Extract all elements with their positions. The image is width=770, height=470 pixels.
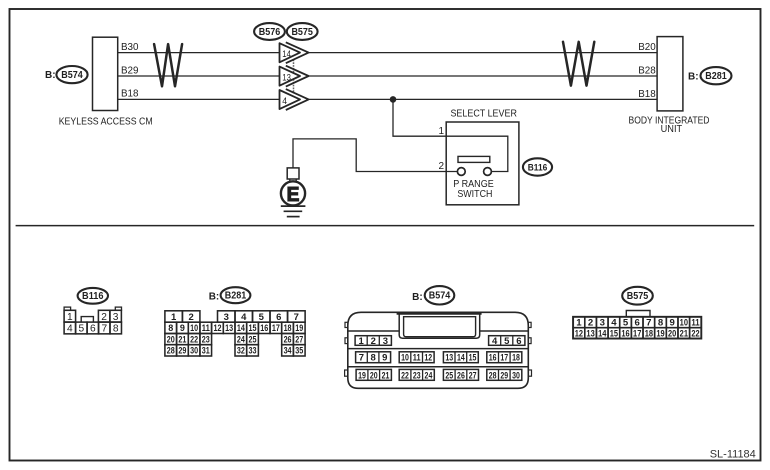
- connector label B: B281 (pinout): [209, 287, 251, 303]
- harness crossing symbol (right W): [563, 42, 594, 86]
- svg-text:15: 15: [610, 329, 619, 340]
- svg-text:19: 19: [295, 323, 303, 333]
- svg-text:18: 18: [284, 323, 292, 333]
- connector label B: B574 (pinout): [412, 286, 454, 304]
- svg-text:KEYLESS ACCESS CM: KEYLESS ACCESS CM: [59, 117, 153, 128]
- svg-text:23: 23: [202, 334, 210, 344]
- svg-text:6: 6: [516, 336, 521, 347]
- svg-text:B116: B116: [528, 162, 548, 172]
- svg-text:4: 4: [241, 312, 247, 323]
- wire B20 right segment: [309, 52, 657, 54]
- switch bar: [458, 156, 490, 162]
- pin 1 label: [438, 126, 444, 137]
- B574 pinout row 2 cells 7-18: [356, 352, 522, 364]
- wire B29 left segment: [118, 75, 280, 77]
- svg-text:15: 15: [469, 353, 477, 364]
- connector label B: B281: [688, 67, 732, 84]
- svg-text:9: 9: [382, 353, 387, 364]
- svg-text:1: 1: [67, 312, 73, 323]
- pin label B30: [121, 42, 139, 53]
- svg-text:7: 7: [101, 324, 107, 335]
- ground E symbol: [281, 181, 305, 206]
- svg-text:29: 29: [178, 346, 186, 356]
- in-line connector terminal 4: [280, 89, 309, 110]
- svg-text:19: 19: [656, 329, 664, 340]
- svg-text:21: 21: [680, 329, 689, 340]
- svg-text:32: 32: [237, 346, 245, 356]
- svg-text:25: 25: [445, 370, 453, 381]
- svg-text:6: 6: [276, 312, 281, 323]
- svg-text:SELECT LEVER: SELECT LEVER: [450, 109, 517, 120]
- svg-text:B:: B:: [209, 292, 220, 303]
- svg-text:7: 7: [359, 353, 364, 364]
- svg-text:33: 33: [249, 346, 257, 356]
- svg-text:15: 15: [249, 323, 257, 333]
- switch contact left: [457, 168, 465, 176]
- svg-text:14: 14: [282, 49, 291, 59]
- connector box: BODY INTEGRATED UNIT: [629, 37, 710, 136]
- pin 2 label: [438, 161, 444, 172]
- svg-text:13: 13: [586, 329, 594, 340]
- connector label B575 (schematic): [287, 23, 318, 40]
- svg-text:8: 8: [168, 323, 173, 333]
- wire B30 left segment: [118, 52, 280, 54]
- svg-text:SL-11184: SL-11184: [710, 448, 756, 460]
- svg-text:9: 9: [180, 323, 185, 333]
- svg-text:B:: B:: [412, 292, 423, 303]
- pin label B20: [638, 42, 656, 53]
- svg-text:28: 28: [489, 370, 497, 381]
- svg-text:B20: B20: [638, 42, 656, 53]
- svg-text:31: 31: [202, 346, 210, 356]
- svg-text:12: 12: [213, 323, 221, 333]
- svg-text:25: 25: [249, 334, 257, 344]
- svg-text:21: 21: [382, 370, 390, 381]
- pin label B18: [121, 89, 139, 100]
- svg-text:12: 12: [424, 353, 432, 364]
- connector label B116 (pinout): [78, 288, 108, 304]
- B574 pinout row 1 cells 1-6: [355, 336, 525, 347]
- svg-text:10: 10: [190, 323, 198, 333]
- pin label B29: [121, 65, 139, 76]
- svg-text:4: 4: [282, 96, 287, 106]
- svg-text:35: 35: [295, 346, 303, 356]
- svg-text:30: 30: [512, 370, 520, 381]
- svg-text:11: 11: [413, 353, 421, 364]
- svg-text:4: 4: [492, 336, 498, 347]
- pin label B18 (right): [638, 89, 656, 100]
- svg-text:8: 8: [370, 353, 375, 364]
- svg-text:17: 17: [500, 353, 508, 364]
- svg-text:14: 14: [237, 323, 245, 333]
- connector label B576: [254, 23, 285, 40]
- switch contact right: [484, 168, 492, 176]
- svg-text:10: 10: [401, 353, 409, 364]
- svg-text:1: 1: [171, 312, 177, 323]
- harness crossing symbol (left W): [154, 44, 182, 86]
- svg-text:18: 18: [512, 353, 520, 364]
- svg-text:24: 24: [425, 370, 433, 381]
- svg-text:22: 22: [691, 329, 699, 340]
- svg-text:B18: B18: [638, 89, 656, 100]
- svg-text:5: 5: [504, 336, 510, 347]
- svg-text:2: 2: [101, 312, 107, 323]
- svg-text:27: 27: [295, 334, 303, 344]
- connector label B116 (schematic): [523, 158, 552, 175]
- svg-text:29: 29: [500, 370, 508, 381]
- svg-text:2: 2: [189, 312, 194, 323]
- wire from junction to select lever pin 1: [393, 99, 446, 136]
- wire B28 right segment: [309, 75, 657, 77]
- pin label B28: [638, 66, 656, 77]
- svg-text:B29: B29: [121, 65, 139, 76]
- in-line connector terminal 14: [280, 42, 309, 63]
- svg-text:B:: B:: [688, 71, 699, 82]
- svg-text:16: 16: [621, 329, 629, 340]
- svg-text:22: 22: [190, 334, 198, 344]
- svg-text:17: 17: [633, 329, 641, 340]
- P range switch label: [453, 179, 494, 200]
- connector label B575 (pinout): [622, 287, 653, 305]
- svg-text:7: 7: [294, 312, 299, 323]
- svg-text:2: 2: [438, 161, 444, 172]
- switch internal wiring pin1 to right contact: [446, 136, 508, 171]
- wire B18 left segment: [118, 98, 280, 100]
- svg-text:B18: B18: [121, 89, 139, 100]
- svg-text:27: 27: [469, 370, 477, 381]
- wire B18 right segment: [309, 98, 657, 100]
- svg-text:23: 23: [413, 370, 421, 381]
- svg-text:19: 19: [358, 370, 366, 381]
- svg-text:B28: B28: [638, 66, 656, 77]
- svg-text:3: 3: [224, 312, 229, 323]
- svg-text:28: 28: [167, 346, 175, 356]
- svg-text:5: 5: [78, 324, 84, 335]
- svg-text:20: 20: [370, 370, 378, 381]
- junction node on wire B18: [390, 96, 397, 103]
- connector B281 pinout: [165, 311, 305, 356]
- svg-text:34: 34: [284, 346, 292, 356]
- svg-text:2: 2: [371, 336, 376, 347]
- svg-text:4: 4: [67, 324, 73, 335]
- svg-text:B576: B576: [259, 27, 281, 38]
- wire from ground to pin 2: [293, 139, 457, 172]
- svg-text:B281: B281: [705, 71, 727, 82]
- svg-text:B575: B575: [627, 291, 649, 302]
- connector label B: B574: [45, 66, 88, 83]
- svg-text:20: 20: [167, 334, 175, 344]
- svg-text:16: 16: [489, 353, 497, 364]
- svg-text:14: 14: [598, 329, 607, 340]
- svg-text:18: 18: [645, 329, 654, 340]
- svg-text:21: 21: [178, 334, 186, 344]
- svg-text:SWITCH: SWITCH: [457, 189, 492, 200]
- svg-text:26: 26: [284, 334, 292, 344]
- svg-text:B30: B30: [121, 42, 139, 53]
- connector B574 pinout shell: [345, 312, 532, 388]
- B574 pinout row 3 cells 19-30: [356, 369, 522, 381]
- svg-text:1: 1: [438, 126, 444, 137]
- svg-text:B281: B281: [225, 291, 247, 302]
- svg-text:13: 13: [225, 323, 233, 333]
- svg-text:11: 11: [202, 323, 210, 333]
- svg-text:B574: B574: [429, 291, 451, 302]
- svg-text:12: 12: [575, 329, 583, 340]
- dashed link between in-line connector terminals: [293, 60, 295, 94]
- select lever box: [446, 109, 519, 205]
- svg-text:B116: B116: [82, 291, 104, 302]
- svg-text:3: 3: [113, 312, 119, 323]
- svg-text:13: 13: [445, 353, 453, 364]
- svg-text:1: 1: [359, 336, 365, 347]
- svg-text:30: 30: [190, 346, 198, 356]
- svg-text:B574: B574: [61, 70, 83, 81]
- svg-text:24: 24: [237, 334, 245, 344]
- svg-text:E: E: [287, 183, 300, 206]
- connector B575 pinout: [573, 311, 701, 340]
- svg-text:B:: B:: [45, 70, 56, 81]
- svg-text:6: 6: [90, 324, 96, 335]
- connector B116 pinout: [64, 307, 121, 334]
- svg-text:17: 17: [272, 323, 280, 333]
- svg-text:26: 26: [457, 370, 465, 381]
- svg-text:20: 20: [668, 329, 676, 340]
- svg-text:13: 13: [282, 72, 291, 82]
- svg-text:3: 3: [383, 336, 388, 347]
- connector box: KEYLESS ACCESS CM: [59, 37, 153, 127]
- ground connector block: [287, 168, 299, 182]
- in-line connector terminal 13: [280, 66, 309, 87]
- svg-text:8: 8: [113, 324, 119, 335]
- svg-text:16: 16: [260, 323, 268, 333]
- ground: [281, 206, 306, 217]
- figure number SL-11184: [710, 448, 756, 460]
- svg-text:5: 5: [259, 312, 265, 323]
- svg-text:UNIT: UNIT: [661, 124, 683, 135]
- svg-text:B575: B575: [291, 27, 313, 38]
- svg-text:14: 14: [457, 353, 465, 364]
- svg-text:22: 22: [401, 370, 409, 381]
